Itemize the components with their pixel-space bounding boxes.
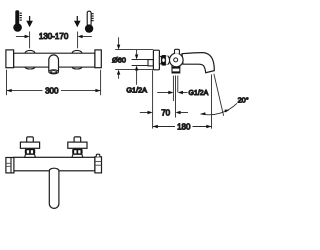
svg-text:Ø60: Ø60: [112, 56, 126, 65]
mixer bar fig1: [14, 53, 95, 67]
wall connector thread box: [148, 60, 153, 66]
20 deg arc: [201, 103, 238, 114]
escutcheon dome left: [25, 50, 35, 53]
svg-text:20°: 20°: [238, 96, 249, 105]
dim diameter 60: [115, 37, 153, 79]
union piece: [159, 56, 161, 63]
wall plate fig2: [153, 50, 159, 70]
dim G1/2A wall thread: [132, 50, 148, 85]
svg-text:180: 180: [177, 122, 191, 131]
flow arrow right: [74, 16, 81, 27]
20 deg slant line: [214, 74, 224, 116]
fig3 spout: [49, 168, 59, 208]
fig3 handle left: [20, 137, 39, 157]
cartridge center fig1: [49, 55, 59, 71]
valve stem knob: [175, 49, 180, 53]
outlet thread lines: [173, 76, 177, 118]
fig3 handle right: [68, 137, 87, 157]
right end cap fig1: [95, 50, 101, 68]
ring before valve: [168, 56, 170, 65]
valve body circle: [170, 53, 184, 67]
wall extension line: [152, 70, 154, 128]
fig3 left cap: [6, 158, 14, 173]
valve inner circle: [174, 58, 178, 62]
dim 70: [140, 111, 188, 114]
svg-text:70: 70: [161, 108, 170, 117]
dim 130-170: [16, 32, 92, 49]
flow arrow left: [26, 16, 33, 27]
escutcheon bottom arc right: [72, 67, 82, 69]
svg-text:130-170: 130-170: [39, 32, 69, 41]
outlet under valve: [172, 65, 180, 73]
fig3 right knob: [96, 154, 100, 157]
svg-text:G1/2A: G1/2A: [189, 90, 209, 97]
svg-text:G1/2A: G1/2A: [126, 85, 147, 94]
fig3 bar: [14, 157, 95, 171]
dim 300: [7, 70, 101, 95]
spout fig2: [182, 53, 214, 73]
union nut (dark): [161, 55, 167, 66]
svg-text:300: 300: [45, 87, 59, 96]
20 deg arc arrows: [201, 112, 206, 115]
thermometer cold (right, open stem): [85, 11, 94, 33]
fig3 right cap: [95, 157, 102, 173]
leader G1/2A outlet: [157, 91, 187, 94]
escutcheon dome right: [72, 50, 82, 53]
thermometer hot (left, filled): [13, 10, 22, 32]
left end cap fig1: [6, 50, 14, 68]
escutcheon bottom arc left: [25, 67, 35, 69]
spout tip reference line: [211, 75, 213, 129]
dim 180: [153, 125, 212, 128]
